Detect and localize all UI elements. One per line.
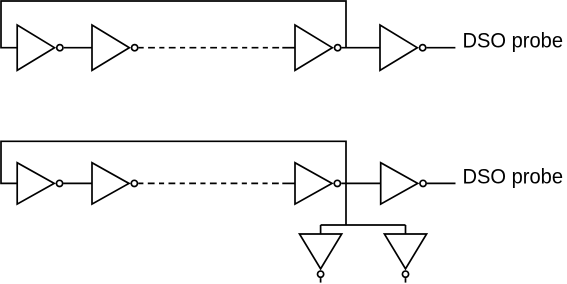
wire U4 to probe — [427, 47, 456, 49]
wire U3-U4 with feedback node — [342, 47, 380, 49]
inverter U3 — [295, 25, 332, 70]
wire dashed omitted-stages — [138, 182, 282, 184]
ring oscillator 2: feedback wire loop — [1, 141, 346, 183]
bubble U1 output — [57, 45, 63, 51]
inverter U9 (load, pointing down) — [300, 234, 342, 269]
ring oscillator 1: feedback wire loop — [1, 1, 346, 48]
wire U5-U6 — [64, 182, 93, 184]
wire U8 to probe — [427, 182, 456, 184]
wire U7-U8 with feedback/load node — [341, 182, 380, 184]
svg-text:DSO probe: DSO probe — [463, 165, 564, 189]
bubble U8 output — [420, 180, 426, 186]
wire dashed omitted-stages — [139, 47, 283, 49]
inverter U8 — [381, 163, 418, 204]
bubble U6 output — [131, 180, 137, 186]
bubble U9 output — [318, 271, 324, 277]
inverter U6 — [92, 163, 129, 204]
wire U1-U2 — [64, 47, 92, 49]
inverter U10 (load, pointing down) — [384, 234, 426, 269]
bubble U3 output — [335, 45, 341, 51]
wire below U9 bubble — [320, 278, 322, 283]
wire dash tail into U7 — [282, 182, 295, 184]
svg-text:DSO probe: DSO probe — [463, 28, 564, 52]
wire stub to U9 — [320, 225, 322, 234]
inverter U5 — [17, 163, 54, 204]
inverter U7 — [295, 163, 332, 204]
bubble U2 output — [132, 45, 138, 51]
inverter U2 — [92, 25, 129, 70]
bubble U4 output — [420, 45, 426, 51]
bubble U10 output — [402, 271, 408, 277]
bubble U5 output — [56, 180, 62, 186]
wire below U10 bubble — [405, 278, 407, 283]
inverter U1 — [17, 25, 54, 70]
wire dash tail into U3 — [282, 47, 295, 49]
bubble U7 output — [334, 180, 340, 186]
wire load distribution bar — [321, 224, 406, 226]
wire stub to U10 — [405, 225, 407, 234]
inverter U4 — [380, 25, 417, 70]
wire load tap from node down — [345, 183, 347, 225]
